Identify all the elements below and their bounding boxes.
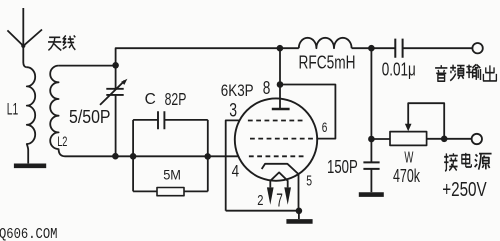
tube grid g1 (pin 4) dashed bbox=[249, 155, 304, 157]
ground (150P) bbox=[359, 192, 384, 197]
tube plate (pin 8) lead bbox=[279, 48, 281, 109]
node RC right bbox=[204, 153, 211, 160]
wire 150P to ground bbox=[370, 169, 372, 192]
wire pin3 to ground bus bbox=[226, 120, 241, 210]
potentiometer W 470k body bbox=[390, 132, 427, 146]
svg-text:RFC5mH: RFC5mH bbox=[299, 53, 356, 73]
svg-text:0.01μ: 0.01μ bbox=[382, 60, 416, 80]
variable capacitor 5/50P bbox=[100, 65, 127, 156]
node 150P / pot branch bbox=[368, 136, 375, 143]
node antenna/varcap top bbox=[112, 62, 119, 69]
svg-text:5: 5 bbox=[306, 174, 312, 190]
tube heater pin 2 arrow bbox=[267, 187, 274, 204]
node plate / screen tie bbox=[277, 81, 284, 88]
label 接电源 bbox=[444, 153, 491, 171]
wire pot branch bbox=[371, 138, 390, 140]
svg-text:7: 7 bbox=[276, 191, 283, 211]
wire grid bus (L2 bottom to tube) bbox=[65, 155, 238, 157]
tube heater filament bbox=[270, 172, 287, 187]
wire cathode ground bus bbox=[226, 210, 299, 212]
svg-text:L1: L1 bbox=[7, 100, 18, 119]
svg-text:4: 4 bbox=[232, 162, 240, 181]
potentiometer wiper bbox=[408, 103, 444, 139]
capacitor C 82P bbox=[158, 111, 164, 129]
svg-text:3: 3 bbox=[229, 101, 237, 122]
inductor L2 bbox=[50, 66, 65, 157]
label 天线 bbox=[48, 35, 75, 50]
node wiper tie bbox=[441, 136, 448, 143]
svg-text:2: 2 bbox=[257, 193, 263, 209]
terminal 音频输出 bbox=[472, 43, 482, 53]
wire top bus to 150P bbox=[370, 48, 372, 162]
ground (L1) bbox=[14, 164, 46, 169]
svg-text:6: 6 bbox=[322, 120, 328, 135]
capacitor 150P bbox=[363, 162, 379, 169]
wire RFC to coupling cap bbox=[352, 47, 396, 49]
node plate lead / top bus bbox=[277, 45, 284, 52]
svg-text:8: 8 bbox=[263, 77, 271, 98]
svg-text:5/50P: 5/50P bbox=[69, 107, 111, 127]
svg-text:470k: 470k bbox=[393, 165, 420, 186]
node cathode/ground bbox=[296, 208, 303, 215]
tube cathode and pin 5 lead bbox=[262, 164, 299, 211]
tube grid g3 (pin 3) dashed bbox=[248, 120, 305, 122]
inductor L1 bbox=[27, 67, 35, 163]
node 150P branch top bbox=[368, 45, 375, 52]
wire cap to audio terminal bbox=[403, 47, 473, 49]
wire top bus left corner bbox=[116, 48, 299, 65]
svg-text:+250V: +250V bbox=[442, 179, 487, 201]
svg-text:L2: L2 bbox=[57, 133, 67, 149]
wire plate to screen (pin 6) bbox=[280, 85, 335, 139]
svg-text:C: C bbox=[145, 91, 156, 108]
terminal 接电源 bbox=[472, 134, 482, 144]
ground (cathode) bbox=[286, 211, 312, 222]
inductor RFC 5mH bbox=[299, 38, 352, 48]
antenna bbox=[7, 8, 42, 67]
resistor 5M bbox=[157, 188, 184, 196]
label 音频输出 bbox=[435, 64, 496, 81]
tube plate bar bbox=[272, 108, 290, 110]
node varcap bottom bbox=[112, 153, 119, 160]
wire L2 top to antenna node bbox=[59, 65, 116, 67]
tube grid g2 (pin 6) dashed bbox=[250, 138, 317, 140]
wire RC network box bbox=[133, 120, 208, 191]
svg-text:Q606.COM: Q606.COM bbox=[0, 226, 58, 241]
node RC left bbox=[130, 153, 137, 160]
tube 6K3P envelope bbox=[235, 98, 317, 180]
capacitor 0.01μ bbox=[395, 39, 402, 58]
wire pot to power terminal bbox=[427, 138, 472, 140]
svg-text:82P: 82P bbox=[165, 89, 187, 109]
svg-text:150P: 150P bbox=[327, 157, 358, 177]
label C 82P bbox=[145, 89, 187, 109]
svg-text:5M: 5M bbox=[163, 168, 181, 183]
svg-text:6K3P: 6K3P bbox=[221, 82, 254, 100]
tube heater pin 7 arrow bbox=[284, 187, 291, 204]
